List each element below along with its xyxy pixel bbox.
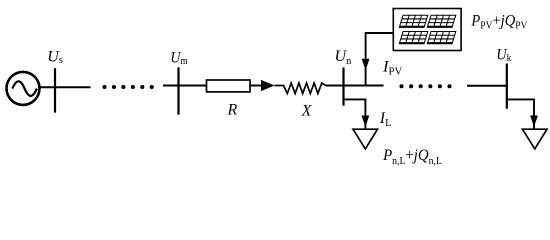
svg-text:X: X bbox=[301, 103, 313, 120]
svg-text:R: R bbox=[227, 101, 238, 118]
